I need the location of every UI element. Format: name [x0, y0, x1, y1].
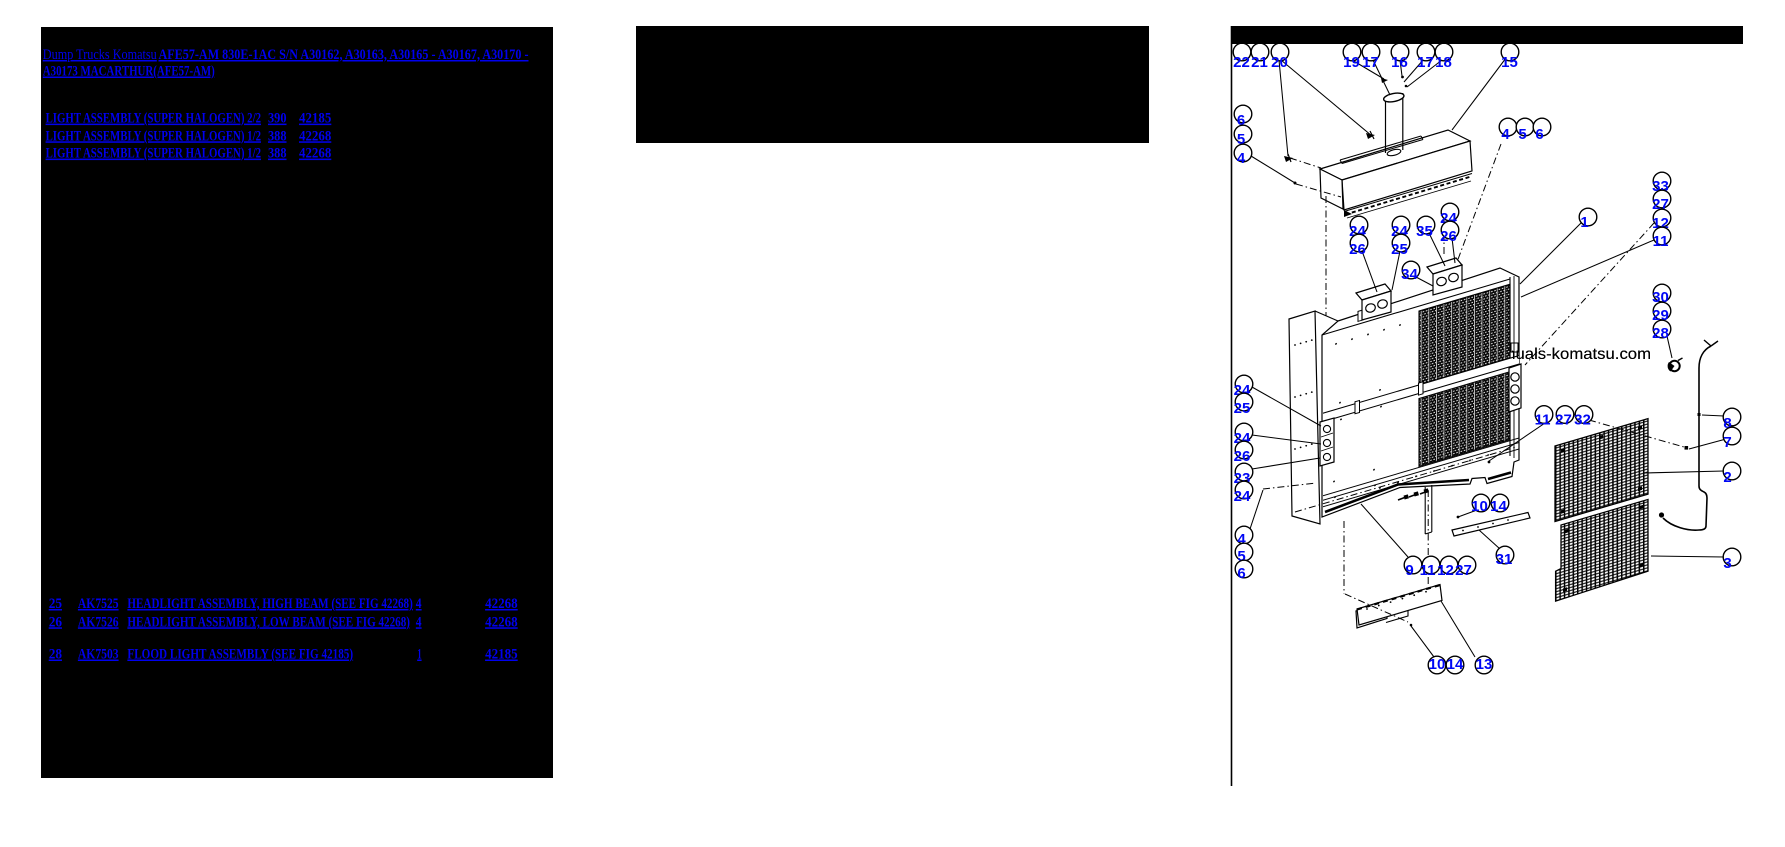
svg-text:10: 10	[1429, 656, 1446, 673]
right bracket body	[1509, 364, 1521, 412]
callout 16	[1391, 43, 1409, 71]
svg-text:3: 3	[1723, 555, 1731, 572]
leader 26b	[1452, 238, 1455, 263]
svg-text:4: 4	[1501, 126, 1510, 143]
svg-text:Dump Trucks Komatsu: Dump Trucks Komatsu	[43, 47, 157, 63]
svg-text:42185: 42185	[299, 111, 331, 127]
callout 4	[1235, 526, 1253, 548]
callout 5	[1235, 543, 1253, 565]
svg-text:42268: 42268	[299, 128, 331, 144]
leader 11 right	[1521, 240, 1654, 297]
leader 7	[1689, 439, 1726, 449]
svg-text:22: 22	[1233, 54, 1250, 71]
plate B	[1356, 602, 1387, 628]
radiator frame outline	[1322, 268, 1519, 517]
callout 10	[1428, 656, 1446, 674]
filler tube	[1385, 101, 1387, 153]
tank left face	[1320, 169, 1343, 209]
leader 4 left	[1251, 156, 1295, 183]
callout 22	[1233, 43, 1251, 71]
callout 26	[1349, 234, 1368, 258]
callout 26	[1234, 441, 1253, 465]
leader 32 dash	[1589, 420, 1684, 447]
svg-text:11: 11	[1420, 562, 1436, 579]
callout 28	[1652, 320, 1671, 342]
filler hole	[1387, 148, 1402, 157]
svg-text:4: 4	[416, 596, 422, 612]
svg-text:388: 388	[268, 146, 287, 162]
grille panel 3	[1556, 499, 1648, 601]
diagram top bar	[1231, 26, 1743, 44]
callout 7	[1723, 427, 1741, 451]
svg-text:20: 20	[1271, 54, 1288, 71]
callout 5	[1516, 118, 1534, 143]
callout 27	[1455, 556, 1476, 579]
svg-text:26: 26	[1440, 228, 1457, 245]
callout 26	[1440, 221, 1459, 245]
leader 10 bottom	[1411, 626, 1434, 657]
svg-text:18: 18	[1435, 54, 1452, 71]
channel clip tab	[1358, 310, 1363, 321]
tank front face	[1342, 141, 1472, 210]
svg-text:17: 17	[1362, 54, 1379, 71]
leader 34	[1416, 277, 1433, 286]
svg-text:24: 24	[1234, 488, 1251, 505]
callout 4	[1234, 144, 1252, 167]
callout 3	[1723, 548, 1741, 572]
left black panel	[41, 27, 553, 778]
leader 2	[1644, 471, 1724, 473]
svg-text:11: 11	[1653, 233, 1669, 250]
callout 8	[1723, 408, 1741, 432]
svg-text:6: 6	[1237, 565, 1245, 582]
callout 24	[1234, 423, 1253, 447]
svg-text:FLOOD LIGHT ASSEMBLY (SEE FIG: FLOOD LIGHT ASSEMBLY (SEE FIG 42185)	[127, 647, 353, 663]
face top edge	[1322, 279, 1510, 335]
callout 27	[1652, 190, 1671, 213]
leader 17b	[1404, 59, 1424, 82]
callout 27	[1555, 406, 1574, 429]
leader 20 to tank bolt	[1281, 60, 1372, 136]
radiator lower core	[1419, 372, 1510, 467]
svg-text:26: 26	[1349, 241, 1366, 258]
svg-text:HEADLIGHT ASSEMBLY, HIGH BEAM: HEADLIGHT ASSEMBLY, HIGH BEAM (SEE FIG 4…	[127, 596, 412, 612]
callout 24	[1234, 375, 1253, 399]
callout 11	[1535, 406, 1553, 429]
svg-text:26: 26	[49, 614, 63, 630]
svg-text:21: 21	[1251, 54, 1268, 71]
vertical centerline mid	[1427, 490, 1429, 585]
tank top strip	[1340, 136, 1421, 160]
svg-text:4: 4	[1237, 150, 1246, 167]
left box front	[1362, 291, 1391, 320]
radiator upper core	[1419, 284, 1510, 385]
callout 21	[1251, 43, 1269, 71]
grille panel 2	[1555, 419, 1648, 522]
diagonal centerline to plate bolt	[1345, 594, 1408, 622]
svg-text:10: 10	[1471, 498, 1488, 515]
callout 24	[1440, 203, 1459, 227]
middle black box	[636, 26, 1149, 143]
svg-text:19: 19	[1343, 54, 1360, 71]
callout 31	[1496, 546, 1514, 568]
centerline right box	[1443, 218, 1445, 257]
face right edge	[1509, 277, 1511, 456]
svg-text:LIGHT ASSEMBLY (SUPER HALOGEN): LIGHT ASSEMBLY (SUPER HALOGEN) 1/2	[46, 146, 261, 162]
right box top	[1427, 258, 1462, 274]
leader 28	[1667, 336, 1672, 358]
svg-text:42268: 42268	[299, 146, 331, 162]
callout 24	[1234, 481, 1253, 505]
leader 10-14 top	[1458, 510, 1477, 517]
callout 6	[1235, 560, 1253, 582]
leader 24a	[1252, 387, 1321, 426]
callout 11	[1420, 556, 1440, 579]
centerline 4	[1296, 184, 1341, 197]
callout 30	[1652, 284, 1671, 306]
leader 4b	[1250, 490, 1263, 529]
callout 6	[1234, 105, 1252, 129]
leader 24b	[1252, 435, 1321, 444]
callout 6	[1533, 118, 1551, 143]
middle band	[1323, 356, 1519, 422]
tank bottom flange	[1346, 177, 1472, 215]
callout 5	[1234, 125, 1252, 148]
svg-text:12: 12	[1437, 562, 1454, 579]
callout 32	[1574, 406, 1593, 429]
leader 17a	[1373, 60, 1390, 95]
svg-text:17: 17	[1417, 54, 1434, 71]
svg-text:34: 34	[1401, 266, 1418, 283]
svg-text:HEADLIGHT ASSEMBLY, LOW BEAM (: HEADLIGHT ASSEMBLY, LOW BEAM (SEE FIG 42…	[127, 614, 410, 630]
svg-text:31: 31	[1496, 551, 1513, 568]
callout 12	[1437, 556, 1458, 579]
svg-text:28: 28	[1652, 325, 1669, 342]
callout 14	[1490, 494, 1509, 515]
leader 13	[1441, 601, 1475, 657]
leader 1	[1520, 223, 1581, 284]
svg-text:1: 1	[417, 647, 421, 663]
callout 17	[1362, 43, 1380, 71]
leader 3	[1651, 556, 1724, 557]
svg-text:9: 9	[1405, 562, 1413, 579]
svg-text:A30173 MACARTHUR(AFE57-AM): A30173 MACARTHUR(AFE57-AM)	[43, 64, 215, 80]
support leg	[1425, 485, 1432, 534]
tank bottom edge	[1344, 174, 1472, 212]
svg-text:14: 14	[1447, 656, 1464, 673]
callout 25	[1391, 234, 1410, 258]
leader 9	[1361, 504, 1408, 557]
svg-text:16: 16	[1391, 54, 1408, 71]
callout 24	[1349, 216, 1368, 240]
callout 13	[1475, 656, 1493, 674]
leader 19	[1352, 60, 1384, 79]
callout 34	[1401, 261, 1420, 283]
svg-text:27: 27	[1455, 562, 1472, 579]
plate A	[1357, 585, 1442, 626]
right flange inner	[1513, 276, 1515, 458]
tank centerline down	[1325, 196, 1327, 316]
callout 4	[1499, 118, 1517, 143]
right box front	[1433, 265, 1462, 295]
vertical centerline left	[1343, 521, 1345, 594]
drain valve cluster	[1398, 491, 1428, 500]
svg-text:LIGHT ASSEMBLY (SUPER HALOGEN): LIGHT ASSEMBLY (SUPER HALOGEN) 1/2	[46, 128, 261, 144]
svg-text:6: 6	[1535, 126, 1543, 143]
flange clip	[1511, 343, 1518, 352]
svg-text:AK7503: AK7503	[78, 647, 119, 663]
drain bracket body	[1320, 418, 1334, 466]
callout 15	[1501, 43, 1519, 71]
svg-text:7: 7	[1723, 434, 1731, 451]
callout 2	[1723, 462, 1741, 486]
svg-text:15: 15	[1501, 54, 1518, 71]
centerline to tank corner	[1290, 158, 1321, 168]
left plate	[1289, 311, 1320, 524]
dash 24c	[1263, 483, 1316, 489]
leader 31	[1479, 530, 1500, 549]
diagram left border	[1231, 26, 1233, 786]
svg-text:32: 32	[1574, 412, 1591, 429]
callout 1	[1579, 208, 1597, 231]
bottom band centerline	[1295, 447, 1516, 512]
leader 26a	[1362, 251, 1377, 292]
svg-text:4: 4	[416, 614, 422, 630]
svg-text:27: 27	[1555, 412, 1572, 429]
leader 16	[1400, 60, 1402, 76]
left box top	[1356, 284, 1391, 300]
svg-text:AFE57-AM 830E-1AC S/N A30162,: AFE57-AM 830E-1AC S/N A30162, A30163, A3…	[159, 47, 529, 63]
leader 18	[1407, 60, 1442, 87]
callout 20	[1271, 43, 1289, 71]
callout 33	[1652, 172, 1671, 195]
svg-text:25: 25	[1391, 241, 1408, 258]
svg-text:28: 28	[49, 647, 62, 663]
callout 35	[1416, 216, 1435, 240]
bottom tank thick edge	[1325, 473, 1511, 513]
leader 12 dash	[1525, 223, 1654, 365]
bolt glyph tank top	[1366, 133, 1375, 139]
leader 8	[1702, 415, 1724, 416]
svg-text:42268: 42268	[485, 596, 518, 612]
svg-text:AK7526: AK7526	[78, 614, 119, 630]
callout 29	[1652, 302, 1671, 324]
leader 11b	[1489, 421, 1548, 461]
svg-text:25: 25	[1234, 400, 1251, 417]
bolt glyph left of tank	[1284, 156, 1293, 162]
svg-text:14: 14	[1490, 498, 1507, 515]
callout 10	[1471, 494, 1490, 515]
grommet 28	[1669, 361, 1679, 371]
wire harness	[1663, 346, 1711, 530]
leader 23	[1252, 458, 1320, 469]
svg-text:LIGHT ASSEMBLY (SUPER HALOGEN): LIGHT ASSEMBLY (SUPER HALOGEN) 2/2	[46, 111, 261, 127]
centerline 456 right	[1457, 144, 1501, 262]
strip 31	[1452, 513, 1530, 537]
svg-text:26: 26	[1234, 448, 1251, 465]
svg-text:11: 11	[1535, 412, 1551, 429]
leader 20 to left bolt	[1279, 60, 1288, 156]
leader 15	[1452, 58, 1506, 130]
callout 23	[1234, 463, 1253, 487]
callout 11	[1653, 227, 1671, 250]
callout 12	[1652, 209, 1671, 232]
tank top face	[1320, 130, 1470, 180]
callout 9	[1404, 556, 1422, 579]
leader 35	[1429, 233, 1445, 266]
callout 17	[1417, 43, 1435, 71]
callout 25	[1234, 393, 1253, 417]
plate A rivet dashes	[1357, 585, 1440, 610]
svg-text:35: 35	[1416, 223, 1433, 240]
callout 14	[1446, 656, 1464, 674]
callout 19	[1343, 43, 1361, 71]
svg-text:2: 2	[1723, 469, 1731, 486]
svg-text:25: 25	[49, 596, 62, 612]
tank flange lower line	[1347, 181, 1471, 218]
svg-text:42185: 42185	[485, 647, 518, 663]
svg-text:42268: 42268	[485, 614, 518, 630]
bottom bands	[1323, 438, 1519, 496]
svg-text:1: 1	[1580, 214, 1588, 231]
callout 24	[1391, 216, 1410, 240]
leader 25	[1392, 251, 1400, 290]
bolt glyph near 19	[1381, 78, 1388, 83]
channel left cap	[1315, 311, 1338, 321]
svg-text:5: 5	[1518, 126, 1526, 143]
svg-text:AK7525: AK7525	[78, 596, 119, 612]
svg-text:13: 13	[1476, 656, 1493, 673]
svg-text:390: 390	[268, 111, 287, 127]
svg-text:388: 388	[268, 128, 287, 144]
callout 18	[1435, 43, 1453, 71]
